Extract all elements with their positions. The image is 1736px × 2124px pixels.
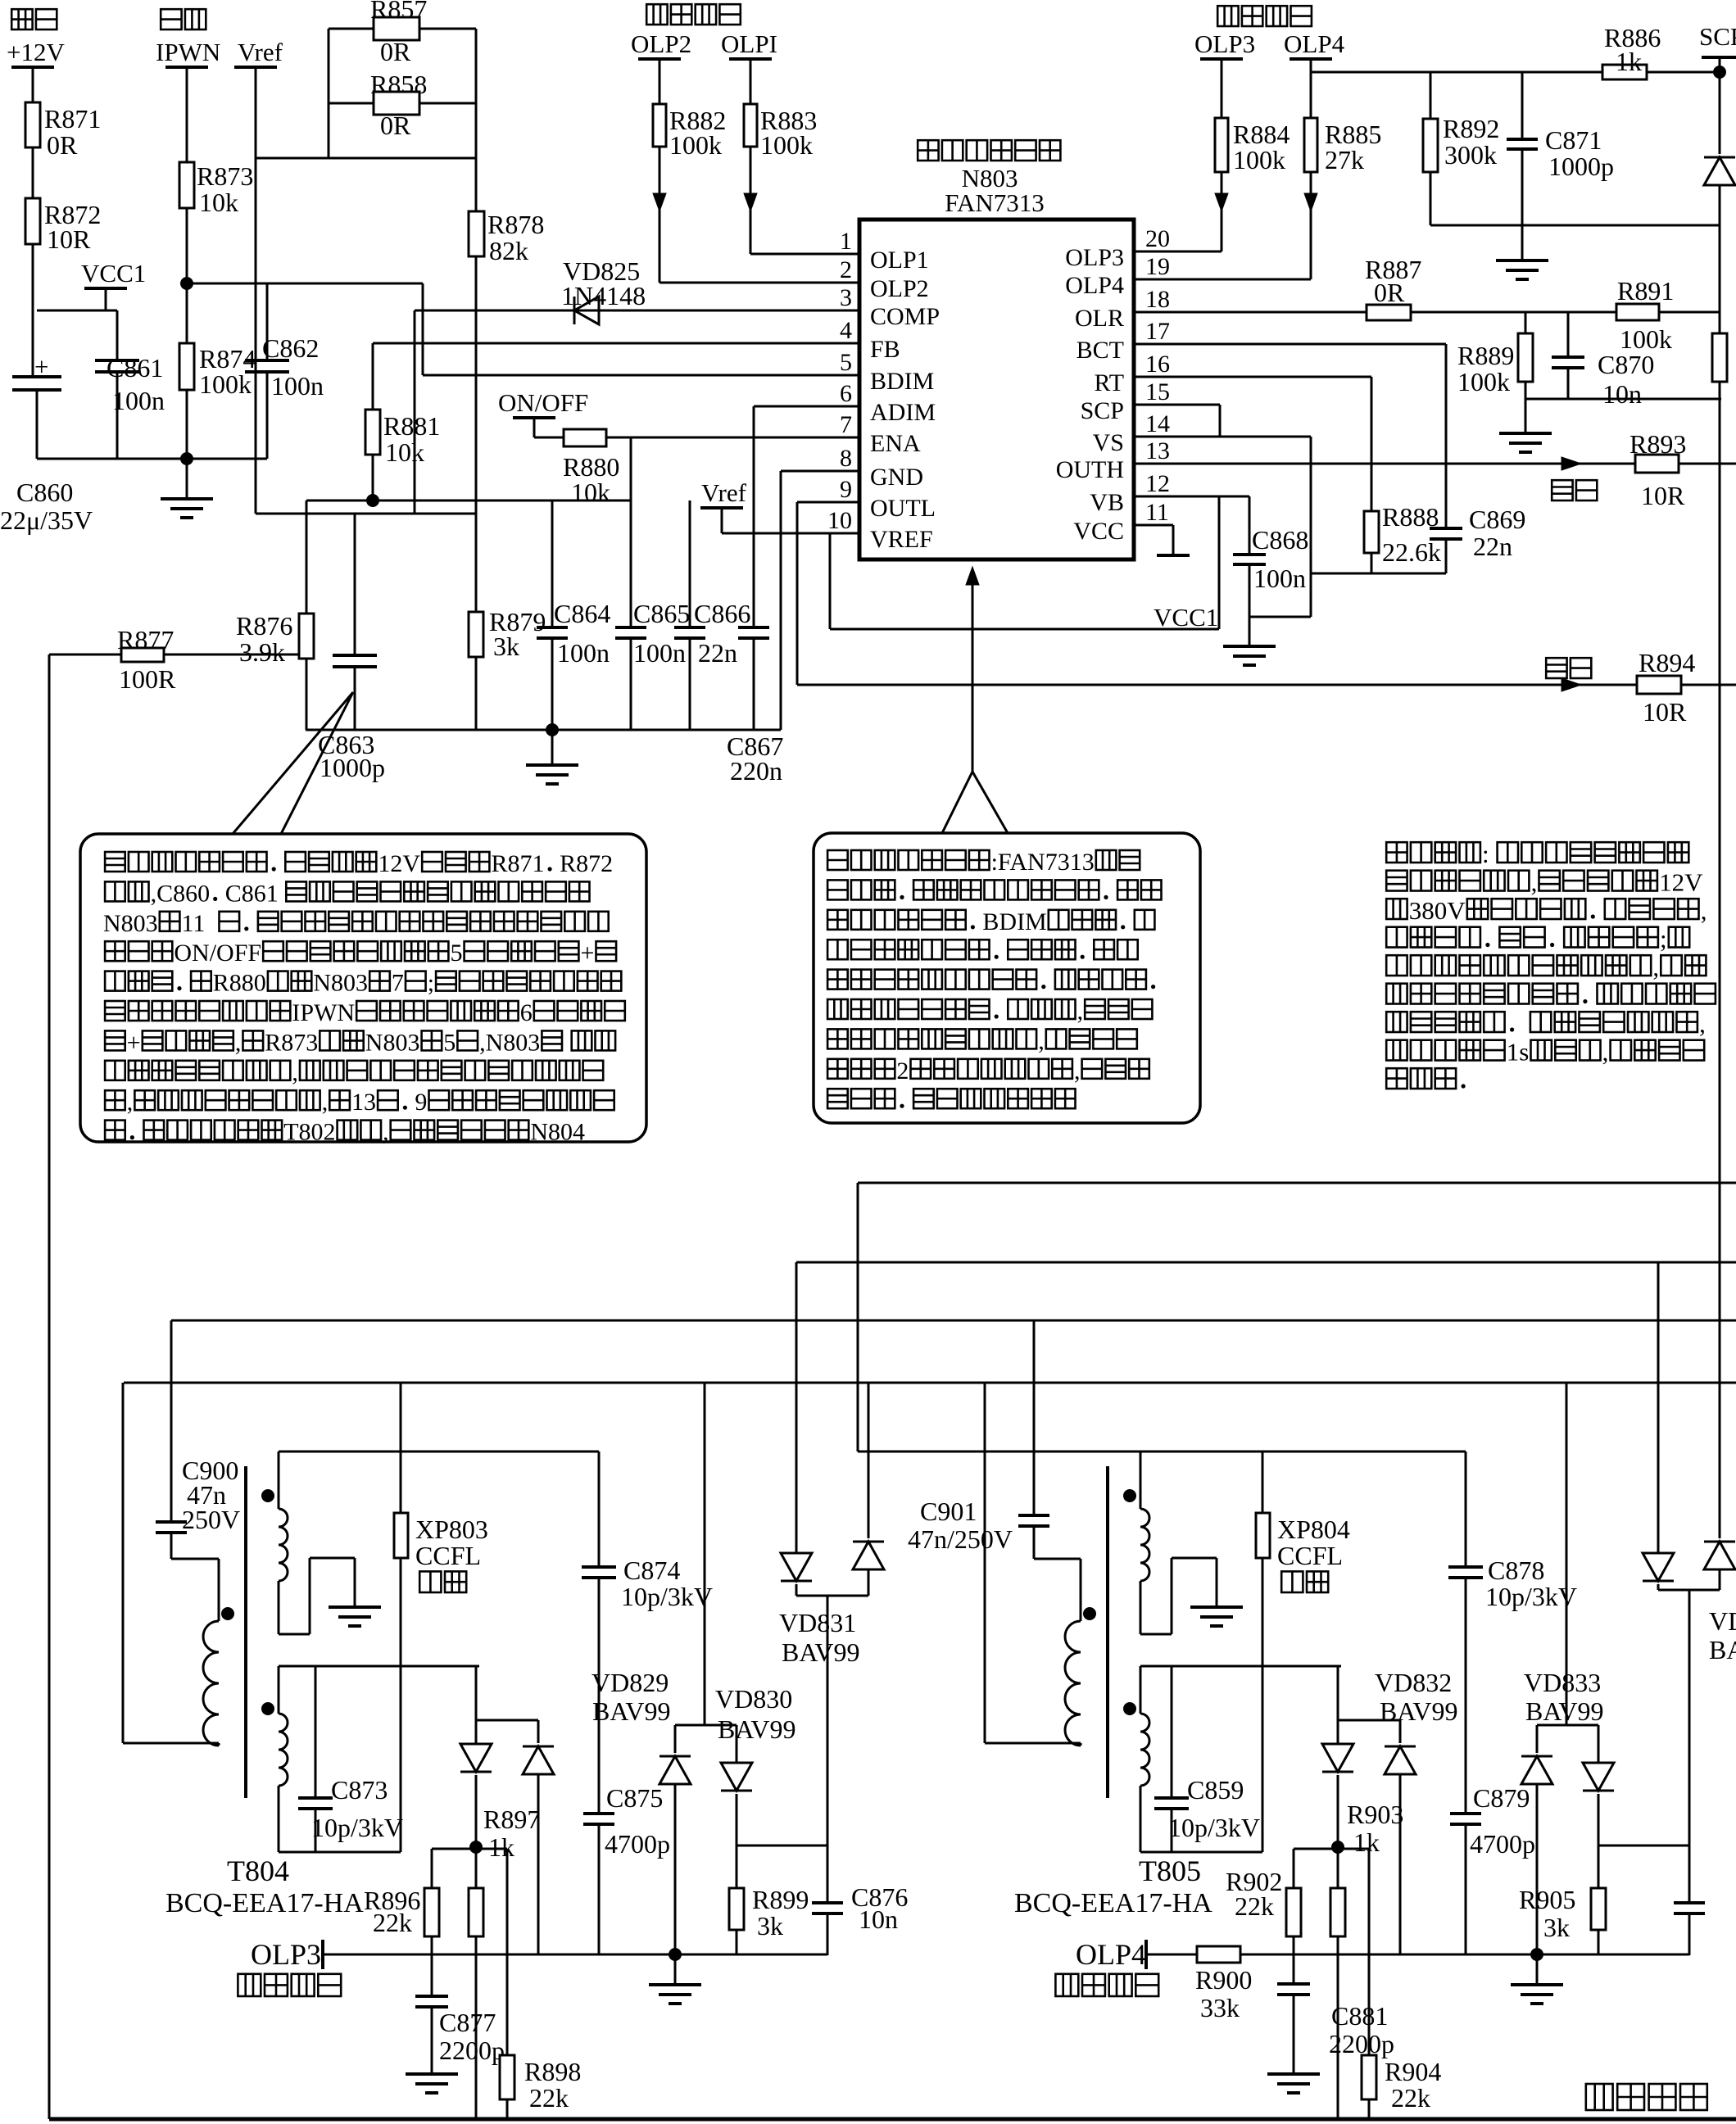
svg-text:10p/3kV: 10p/3kV	[311, 1813, 403, 1842]
svg-text:220n: 220n	[730, 756, 782, 786]
svg-text:OLP3: OLP3	[1194, 29, 1255, 58]
svg-text:BCQ-EEA17-HA: BCQ-EEA17-HA	[165, 1888, 364, 1918]
svg-text:C901: C901	[920, 1497, 977, 1526]
svg-text:,: ,	[1038, 1027, 1045, 1054]
svg-text:C868: C868	[1252, 525, 1308, 555]
svg-text:10k: 10k	[571, 478, 610, 507]
svg-text:,C860: ,C860	[151, 880, 211, 907]
svg-text:OLP3: OLP3	[1065, 244, 1124, 271]
svg-text:OLPI: OLPI	[721, 29, 777, 58]
svg-text:C866: C866	[694, 599, 750, 628]
svg-text:SCP: SCP	[1081, 397, 1124, 424]
svg-text:+: +	[581, 940, 595, 967]
svg-text:1N4148: 1N4148	[561, 281, 646, 310]
svg-text:R891: R891	[1617, 276, 1674, 306]
svg-text:Vref: Vref	[238, 38, 283, 66]
svg-text:C864: C864	[554, 599, 610, 628]
svg-text:+12V: +12V	[7, 38, 65, 66]
svg-text:C871: C871	[1545, 125, 1602, 155]
svg-text:11: 11	[1145, 499, 1169, 526]
svg-text:R876: R876	[236, 611, 292, 641]
svg-text:C859: C859	[1187, 1775, 1244, 1805]
svg-text:10p/3kV: 10p/3kV	[621, 1582, 713, 1611]
svg-text:N803: N803	[103, 910, 158, 937]
svg-text:13: 13	[1145, 437, 1170, 464]
svg-text:10: 10	[827, 507, 852, 534]
svg-text:COMP: COMP	[870, 303, 940, 330]
svg-text:,: ,	[1699, 1009, 1706, 1038]
svg-text:C869: C869	[1469, 505, 1525, 534]
svg-text:7: 7	[392, 970, 404, 997]
svg-text:R892: R892	[1443, 114, 1499, 143]
svg-text:16: 16	[1145, 351, 1170, 378]
svg-text:0R: 0R	[380, 37, 411, 66]
svg-text:1k: 1k	[1353, 1827, 1380, 1857]
svg-text:FB: FB	[870, 336, 900, 363]
svg-text:XP803: XP803	[415, 1515, 488, 1544]
svg-text:GND: GND	[870, 464, 923, 491]
svg-text:2200p: 2200p	[439, 2036, 505, 2065]
svg-text::: :	[1482, 840, 1489, 868]
svg-text:10k: 10k	[199, 188, 238, 217]
svg-text:R900: R900	[1195, 1965, 1252, 1995]
svg-text:R893: R893	[1629, 429, 1686, 459]
svg-text:10n: 10n	[859, 1904, 898, 1934]
svg-text:CCFL: CCFL	[415, 1541, 481, 1570]
svg-text:+: +	[127, 1029, 141, 1056]
svg-text:100R: 100R	[119, 664, 176, 694]
svg-text:BAV99: BAV99	[782, 1637, 859, 1667]
svg-text:;: ;	[1660, 925, 1667, 953]
svg-text:10n: 10n	[1602, 379, 1642, 409]
svg-text:9: 9	[415, 1089, 427, 1116]
svg-text:ON/OFF: ON/OFF	[498, 388, 588, 417]
svg-text:19: 19	[1145, 253, 1170, 280]
svg-text:BDIM: BDIM	[870, 368, 934, 395]
svg-text:N803: N803	[365, 1029, 420, 1056]
svg-text:OLP4: OLP4	[1065, 272, 1124, 299]
svg-text:,: ,	[235, 1029, 242, 1056]
svg-text:VB: VB	[1090, 489, 1124, 516]
svg-text:100n: 100n	[112, 386, 165, 415]
svg-text:VCC1: VCC1	[81, 259, 146, 288]
svg-text:ON/OFF: ON/OFF	[174, 940, 261, 967]
svg-text:10k: 10k	[385, 437, 424, 467]
svg-text:N803: N803	[313, 970, 368, 997]
svg-text:,: ,	[1077, 998, 1084, 1025]
svg-text:R872: R872	[560, 850, 613, 877]
svg-text:10p/3kV: 10p/3kV	[1485, 1582, 1577, 1611]
svg-text:XP804: XP804	[1277, 1515, 1350, 1544]
svg-text:33k: 33k	[1200, 1993, 1240, 2022]
svg-text:12V: 12V	[378, 850, 420, 877]
svg-text:3k: 3k	[757, 1911, 783, 1941]
svg-text:C873: C873	[331, 1775, 388, 1805]
svg-text:C874: C874	[623, 1556, 680, 1585]
svg-text:R873: R873	[265, 1029, 318, 1056]
svg-text:15: 15	[1145, 378, 1170, 405]
svg-text:R878: R878	[487, 210, 544, 239]
svg-text:10R: 10R	[1643, 697, 1687, 727]
svg-text:47n/250V: 47n/250V	[908, 1524, 1013, 1554]
svg-text:5: 5	[840, 349, 852, 376]
svg-text:C879: C879	[1473, 1783, 1530, 1813]
svg-text:R889: R889	[1457, 341, 1514, 370]
svg-text:;: ;	[428, 970, 434, 997]
svg-text:,: ,	[127, 1089, 134, 1116]
svg-text:VREF: VREF	[870, 526, 933, 553]
svg-text:R880: R880	[213, 970, 266, 997]
svg-text:BDIM: BDIM	[982, 908, 1046, 935]
svg-text:OLP4: OLP4	[1076, 1938, 1146, 1971]
svg-text:22μ/35V: 22μ/35V	[0, 505, 93, 535]
svg-text:13: 13	[351, 1089, 376, 1116]
svg-text:10p/3kV: 10p/3kV	[1168, 1813, 1260, 1842]
svg-text:R871: R871	[44, 104, 101, 134]
svg-text:C877: C877	[439, 2008, 496, 2037]
svg-text:5: 5	[443, 1029, 456, 1056]
svg-text:BCT: BCT	[1077, 337, 1124, 364]
svg-text:C865: C865	[633, 599, 690, 628]
svg-text:12: 12	[1145, 470, 1170, 497]
svg-text:R897: R897	[483, 1805, 540, 1834]
svg-text:0R: 0R	[380, 111, 411, 140]
svg-text:IPWN: IPWN	[156, 38, 220, 66]
svg-text:ADIM: ADIM	[870, 399, 936, 426]
svg-text:22.6k: 22.6k	[1382, 537, 1441, 567]
svg-text:RT: RT	[1095, 369, 1125, 396]
svg-text:100n: 100n	[1253, 564, 1306, 593]
svg-text:OUTL: OUTL	[870, 495, 936, 522]
svg-text:2: 2	[896, 1057, 909, 1085]
svg-text:3k: 3k	[493, 632, 519, 661]
svg-text:CCFL: CCFL	[1277, 1541, 1343, 1570]
svg-text:0R: 0R	[47, 130, 78, 160]
svg-text:17: 17	[1145, 318, 1170, 345]
svg-text:R903: R903	[1347, 1800, 1403, 1829]
svg-text:3: 3	[840, 284, 852, 311]
svg-text:300k: 300k	[1444, 140, 1497, 170]
svg-text:,N803: ,N803	[479, 1029, 540, 1056]
svg-text:22k: 22k	[529, 2083, 569, 2113]
svg-text:2: 2	[840, 256, 852, 283]
svg-text:C860: C860	[16, 478, 73, 507]
svg-text:VD829: VD829	[592, 1668, 669, 1697]
svg-text:C862: C862	[262, 333, 319, 363]
svg-text:10R: 10R	[1641, 481, 1685, 510]
svg-text:250V: 250V	[182, 1505, 240, 1534]
svg-text:SCP: SCP	[1699, 22, 1736, 51]
svg-text:OLP3: OLP3	[251, 1938, 321, 1971]
svg-text:100n: 100n	[271, 371, 324, 401]
svg-text:VD830: VD830	[715, 1684, 792, 1714]
svg-text:,: ,	[292, 1059, 298, 1086]
svg-text:,: ,	[1701, 896, 1707, 925]
svg-text:OLP4: OLP4	[1284, 29, 1345, 58]
svg-text:1k: 1k	[1616, 47, 1642, 76]
svg-text:R894: R894	[1639, 648, 1695, 677]
svg-text:1000p: 1000p	[1548, 152, 1614, 181]
svg-text:BAV99: BAV99	[1380, 1696, 1457, 1726]
svg-text:11: 11	[182, 910, 206, 937]
svg-text:22k: 22k	[1391, 2083, 1430, 2113]
svg-text:7: 7	[840, 411, 852, 438]
svg-text:C870: C870	[1598, 350, 1654, 379]
svg-text:T805: T805	[1139, 1855, 1201, 1887]
svg-text:,: ,	[1074, 1057, 1081, 1085]
svg-text:,: ,	[1602, 1038, 1609, 1067]
svg-text:R905: R905	[1519, 1885, 1575, 1914]
svg-text:BAV99: BAV99	[1525, 1696, 1603, 1726]
svg-text:10R: 10R	[47, 224, 91, 254]
svg-text:18: 18	[1145, 286, 1170, 313]
svg-text:,: ,	[383, 1119, 389, 1146]
svg-text:VCC: VCC	[1073, 518, 1124, 545]
svg-text:6: 6	[840, 380, 852, 407]
svg-text:4700p: 4700p	[605, 1829, 670, 1859]
svg-text:100k: 100k	[760, 130, 813, 160]
svg-text:5: 5	[451, 940, 463, 967]
svg-text:100k: 100k	[1457, 367, 1510, 396]
svg-text:C881: C881	[1331, 2001, 1388, 2031]
svg-text:OLR: OLR	[1075, 305, 1124, 332]
svg-text:Vref: Vref	[701, 478, 747, 507]
svg-text:8: 8	[840, 445, 852, 472]
svg-text:BAV99: BAV99	[592, 1696, 670, 1726]
svg-text:22k: 22k	[1235, 1891, 1274, 1921]
svg-text:,: ,	[1652, 953, 1659, 981]
svg-text:R888: R888	[1382, 502, 1439, 532]
svg-text:27k: 27k	[1325, 145, 1364, 174]
svg-text:1: 1	[840, 228, 852, 255]
svg-text:100k: 100k	[1233, 145, 1285, 174]
svg-text:FAN7313: FAN7313	[945, 188, 1045, 217]
svg-text:BAV99: BAV99	[718, 1714, 795, 1744]
svg-text:OUTH: OUTH	[1056, 456, 1124, 483]
svg-text:100n: 100n	[557, 638, 610, 668]
svg-text:4: 4	[840, 317, 852, 344]
svg-text:OLP1: OLP1	[870, 247, 929, 274]
svg-text:T802: T802	[283, 1119, 335, 1146]
svg-text:OLP2: OLP2	[870, 275, 929, 302]
svg-text:22n: 22n	[1473, 532, 1512, 561]
svg-text:12V: 12V	[1659, 868, 1703, 897]
svg-text:ENA: ENA	[870, 430, 921, 457]
svg-text:1s: 1s	[1507, 1038, 1530, 1067]
svg-text:100k: 100k	[199, 369, 252, 399]
svg-text:IPWN: IPWN	[292, 999, 355, 1026]
svg-text:22n: 22n	[698, 638, 737, 668]
svg-text:3k: 3k	[1543, 1913, 1570, 1942]
svg-text:N804: N804	[530, 1119, 585, 1146]
svg-text:C861: C861	[225, 880, 279, 907]
svg-text:R899: R899	[752, 1885, 809, 1914]
svg-text::FAN7313: :FAN7313	[991, 849, 1095, 876]
svg-text:4700p: 4700p	[1470, 1829, 1535, 1859]
svg-text:R904: R904	[1385, 2057, 1441, 2086]
svg-text:VD833: VD833	[1524, 1668, 1601, 1697]
svg-text:C861: C861	[107, 353, 163, 383]
svg-text:82k: 82k	[489, 236, 528, 265]
svg-text:14: 14	[1145, 410, 1170, 437]
svg-text:3.9k: 3.9k	[239, 637, 285, 667]
svg-text:VD832: VD832	[1375, 1668, 1452, 1697]
svg-text:6: 6	[520, 999, 533, 1026]
svg-text:VCC1: VCC1	[1154, 603, 1218, 632]
svg-text:1000p: 1000p	[320, 753, 385, 782]
svg-text:R898: R898	[524, 2057, 581, 2086]
svg-text:0R: 0R	[1374, 278, 1405, 307]
svg-text:OLP2: OLP2	[631, 29, 691, 58]
svg-text:R873: R873	[197, 161, 253, 191]
svg-text:C875: C875	[606, 1783, 663, 1813]
svg-text:22k: 22k	[373, 1908, 412, 1937]
svg-text:VD831: VD831	[779, 1608, 856, 1637]
svg-text:VS: VS	[1093, 429, 1124, 456]
svg-text:T804: T804	[227, 1855, 289, 1887]
svg-text:C878: C878	[1488, 1556, 1544, 1585]
svg-text:BA: BA	[1709, 1635, 1736, 1664]
svg-text:1k: 1k	[488, 1832, 514, 1862]
svg-text:R871: R871	[492, 850, 545, 877]
svg-text:100k: 100k	[669, 130, 722, 160]
svg-text:20: 20	[1145, 225, 1170, 252]
svg-text:100n: 100n	[633, 638, 686, 668]
svg-text:VD: VD	[1709, 1606, 1736, 1636]
svg-text:BCQ-EEA17-HA: BCQ-EEA17-HA	[1014, 1888, 1212, 1918]
svg-text:380V: 380V	[1409, 896, 1466, 925]
svg-text:R881: R881	[383, 411, 440, 441]
svg-text:,: ,	[1531, 868, 1538, 897]
svg-text:R877: R877	[117, 625, 174, 654]
svg-text:,: ,	[322, 1089, 329, 1116]
svg-text:9: 9	[840, 476, 852, 503]
